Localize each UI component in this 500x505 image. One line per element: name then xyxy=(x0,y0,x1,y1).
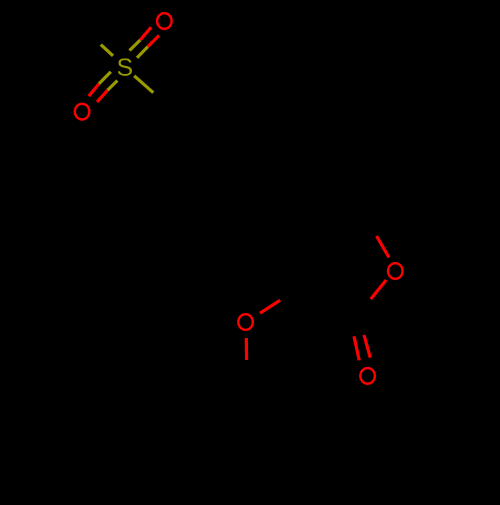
bond ring-O to C2 (oxygen half) xyxy=(371,280,386,299)
bond S=O bottom-left, line 2 xyxy=(97,80,117,101)
bond S=O top-right, line 1 xyxy=(130,27,152,50)
bond S-CH3 (sulfur half) xyxy=(101,45,113,56)
atom label O (sulfonyl top oxygen) xyxy=(157,13,172,29)
bond C2=O carbonyl, line 2 (oxygen half) xyxy=(364,335,370,358)
atom label O (phenoxy oxygen) xyxy=(238,314,253,330)
atom label O (carbonyl oxygen) xyxy=(360,368,375,384)
bond O(phenoxy) to C3 (oxygen half) xyxy=(260,300,280,313)
atom label O (sulfonyl bottom oxygen) xyxy=(75,104,90,120)
bond C2=O carbonyl, line 1 (oxygen half) xyxy=(354,336,359,360)
bond S=O top-right, line 2 xyxy=(137,36,159,58)
bond S=O bottom-left, line 1 xyxy=(89,72,111,97)
bond O(phenoxy) to phenyl C1 (oxygen half) xyxy=(245,338,249,360)
atom label S (sulfur) xyxy=(118,58,132,75)
bond ring-O to C5 (oxygen half) xyxy=(377,236,390,258)
bond S-C(aryl) (sulfur half) xyxy=(134,76,153,93)
atom label O (lactone ring oxygen) xyxy=(388,263,403,279)
